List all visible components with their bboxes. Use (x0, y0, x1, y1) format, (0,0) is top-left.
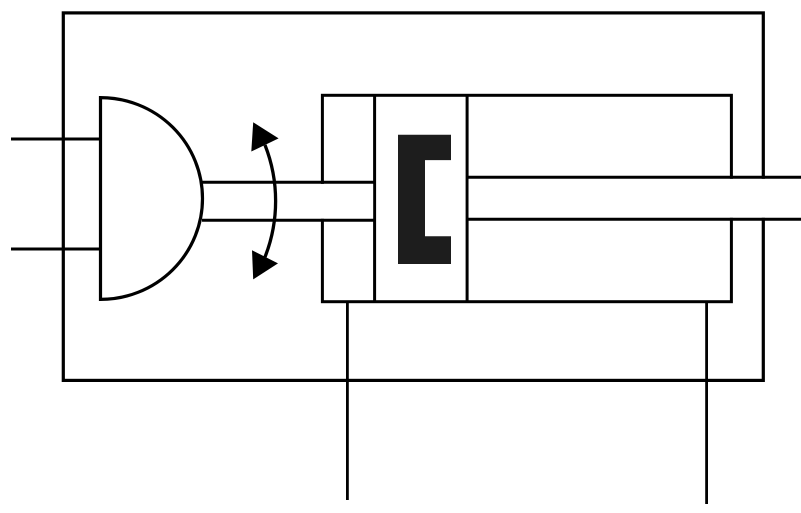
piston rod right top line (467, 176, 801, 179)
pilot line 1 (upper left wire) (11, 138, 101, 141)
swivel arrowhead top (251, 122, 278, 151)
swivel arrowhead bottom (252, 250, 278, 279)
piston wall right (466, 95, 469, 301)
cylinder body (322, 95, 731, 301)
cushioning symbol (black bracket on piston) (398, 135, 451, 264)
port line right (705, 302, 708, 504)
piston wall left (373, 95, 376, 301)
piston rod left bottom line (202, 219, 375, 222)
swivel vane (semicircle) (101, 98, 203, 300)
pilot line 2 (lower left wire) (11, 248, 101, 251)
piston rod right (white fill over walls) (469, 179, 801, 218)
piston rod right bottom line (467, 218, 801, 221)
swivel motion arc (265, 145, 276, 257)
piston rod left top line (202, 181, 375, 184)
outer frame (63, 13, 763, 381)
piston rod left (white fill over cylinder wall) (204, 184, 373, 219)
port line left (346, 302, 349, 500)
